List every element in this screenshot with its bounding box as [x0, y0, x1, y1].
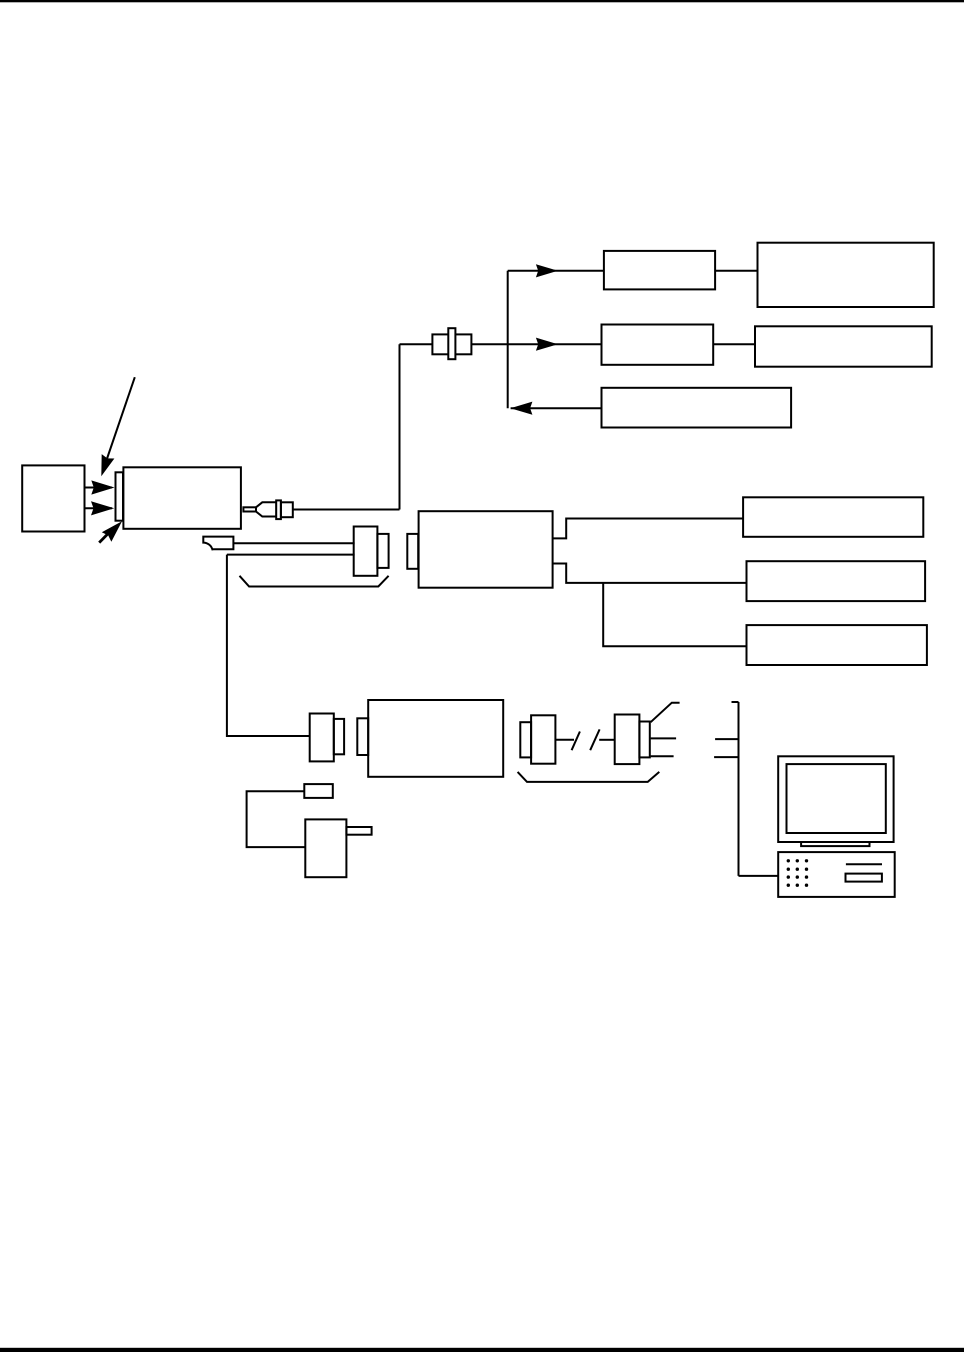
arrowhead sensor line 1	[91, 480, 114, 494]
wire branch 3	[511, 407, 602, 409]
wire processor to box F2	[553, 564, 747, 583]
cable bottom line	[227, 554, 355, 556]
plug tapered body	[256, 502, 276, 516]
plug stub	[243, 507, 256, 511]
bracket under cable	[240, 576, 389, 587]
cable connector collar	[377, 534, 388, 568]
output wire bottom	[651, 755, 674, 757]
box F1	[743, 497, 923, 537]
plug band	[276, 500, 281, 519]
wire to computer	[739, 875, 779, 877]
inline connector band	[448, 328, 455, 359]
bottom page-edge bar	[0, 1348, 964, 1352]
processor input collar	[407, 534, 418, 569]
box D (middle large)	[755, 326, 932, 366]
wire arrow line 1	[85, 487, 113, 489]
monitor outer	[778, 756, 893, 842]
junction vertical wire	[507, 271, 509, 408]
output wire diagonal	[651, 703, 680, 723]
wire down-left from cable	[227, 555, 310, 736]
keyboard dots	[787, 859, 790, 862]
vent line	[846, 863, 882, 865]
receiver box	[368, 700, 503, 777]
transducer box	[305, 819, 346, 877]
sensor face strip	[116, 472, 124, 520]
terminal tick	[732, 701, 739, 703]
cable connector block	[354, 527, 378, 576]
drive slot	[846, 874, 882, 882]
wire branch 1	[508, 270, 604, 272]
ext cable right collar	[639, 722, 649, 758]
receiver connector block	[310, 714, 334, 762]
wire segment middle	[715, 738, 738, 740]
arrowhead branch 3 (left)	[510, 402, 532, 415]
monitor screen	[787, 764, 886, 833]
wire probe to transducer	[247, 791, 306, 847]
transducer stub	[346, 827, 371, 835]
ext cable right block	[615, 715, 640, 765]
receiver input collar	[357, 718, 368, 755]
wire A to B	[715, 270, 757, 272]
wire segment bottom	[714, 756, 738, 758]
wire into inline connector	[400, 343, 433, 345]
plug barrel	[281, 502, 293, 517]
ext cable wire right	[599, 739, 615, 741]
receiver connector collar	[334, 719, 344, 754]
probe plug rect	[304, 784, 333, 798]
wire branch 2	[471, 343, 601, 345]
ext cable wire left	[555, 739, 574, 741]
inline connector barrel	[432, 334, 471, 354]
arrowhead branch 2	[536, 338, 558, 351]
box F2	[747, 561, 926, 601]
box F3	[747, 625, 927, 665]
diagonal pointer line	[105, 377, 135, 466]
cable top line	[233, 542, 354, 544]
wire from plug to riser	[293, 509, 400, 511]
bracket under ext cable	[518, 772, 660, 782]
wire C to D	[713, 343, 755, 345]
sensor main box	[123, 467, 240, 529]
wire arrow line 2	[85, 507, 113, 509]
arrowhead diagonal bottom	[102, 517, 127, 542]
terminal vertical wire	[738, 702, 740, 876]
break slash 1	[572, 732, 580, 751]
arrowhead branch 1	[536, 264, 558, 277]
system unit	[778, 852, 895, 897]
left source box	[22, 465, 84, 531]
box B (top large)	[758, 243, 934, 307]
ext cable left block	[531, 715, 555, 763]
ext cable left collar	[520, 722, 531, 757]
break slash 2	[590, 729, 599, 750]
wire processor to box F1	[553, 519, 744, 539]
flag connector	[203, 537, 233, 551]
top page-edge bar	[0, 0, 964, 2]
diagonal pointer tail bottom	[98, 533, 108, 543]
wire branch to box F3	[603, 583, 746, 646]
box A (top small)	[604, 251, 715, 290]
wire down from inline connector	[399, 344, 401, 509]
box C (middle small)	[602, 325, 714, 365]
box E (wide return box)	[602, 388, 792, 428]
processor box	[419, 511, 553, 588]
monitor pedestal	[801, 842, 869, 846]
arrowhead diagonal top	[95, 454, 114, 478]
output wire middle	[651, 737, 677, 739]
arrowhead sensor line 2	[91, 501, 114, 515]
